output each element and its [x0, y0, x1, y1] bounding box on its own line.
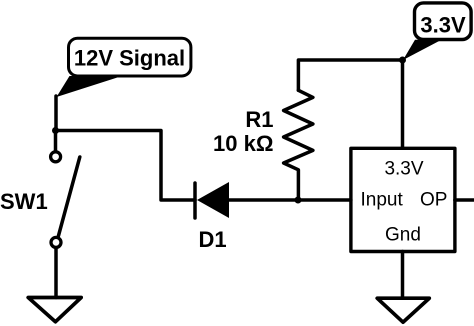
node A junction dot [52, 127, 59, 134]
switch SW1 bottom terminal [51, 237, 61, 247]
ground (right) [377, 298, 429, 322]
switch SW1 top terminal [51, 152, 61, 162]
svg-text:12V Signal: 12V Signal [74, 46, 185, 71]
3.3V callout box [403, 3, 471, 60]
wire node A to diode (right, down, right) [56, 131, 196, 201]
diode D1 triangle [197, 182, 229, 218]
wire callout tail to node A [54, 96, 58, 131]
svg-text:3.3V: 3.3V [420, 12, 466, 37]
node B junction dot (resistor bottom) [295, 197, 302, 204]
wire node C to regulator top [401, 60, 405, 148]
ground (left) [28, 298, 81, 322]
switch SW1 blade [58, 157, 79, 236]
node C junction dot (3.3V) [399, 57, 406, 64]
svg-text:SW1: SW1 [0, 189, 48, 214]
regulator U1 box [351, 148, 455, 251]
svg-text:Gnd: Gnd [385, 225, 421, 246]
wire OP output stub [455, 198, 474, 202]
svg-text:3.3V: 3.3V [384, 159, 423, 180]
wire regulator Gnd to ground [401, 252, 405, 299]
diode D1 cathode bar [193, 183, 197, 218]
svg-text:Input: Input [361, 190, 404, 211]
svg-text:OP: OP [420, 190, 447, 211]
12V Signal callout box [57, 38, 191, 97]
svg-text:D1: D1 [198, 227, 226, 252]
svg-text:R1: R1 [245, 107, 273, 132]
svg-text:10 kΩ: 10 kΩ [213, 131, 273, 156]
wire diode to regulator input [229, 198, 351, 202]
wire SW1 to ground [54, 248, 58, 298]
resistor R1 zigzag [284, 90, 313, 200]
wire 3.3V node to resistor top [298, 60, 401, 90]
wire node A down to switch SW1 [54, 131, 58, 151]
